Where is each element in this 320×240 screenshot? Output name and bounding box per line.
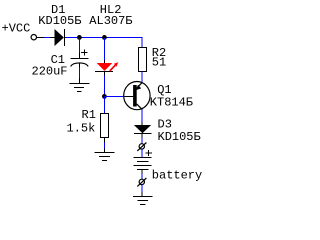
wire LED to base junction	[104, 76, 106, 97]
transistor Q1 emitter arrow (PNP)	[136, 85, 141, 90]
svg-text:1.5k: 1.5k	[67, 122, 96, 136]
wire test point 2 to ground	[141, 185, 143, 193]
ground under C1	[70, 84, 90, 92]
svg-text:KT814Б: KT814Б	[150, 95, 193, 109]
junction node LED branch	[102, 35, 107, 40]
capacitor C1 curved bottom plate	[71, 63, 89, 66]
diode D1 cathode bar	[63, 29, 65, 46]
wire D3 to test point	[141, 138, 143, 144]
wire C1 to ground	[79, 63, 81, 67]
ground under R1	[95, 153, 115, 161]
wire rail down to C1	[79, 38, 81, 53]
capacitor C1 anode stub	[79, 53, 81, 59]
wire Q1 collector down to D3	[141, 110, 143, 123]
transistor Q1 circle	[124, 82, 150, 110]
svg-text:battery: battery	[152, 168, 202, 182]
svg-text:KD105Б: KD105Б	[158, 130, 201, 144]
terminal stub wire	[37, 37, 44, 39]
battery plus sign	[145, 150, 151, 156]
LED HL2 red triangle	[97, 63, 113, 71]
wire terminal to D1 anode	[44, 37, 50, 39]
wire R1 to ground	[104, 138, 106, 143]
transistor Q1 emitter diagonal	[137, 82, 143, 88]
svg-text:+VCC: +VCC	[2, 21, 31, 35]
diode D3 cathode stub	[141, 134, 143, 138]
resistor R2 body	[139, 48, 147, 72]
transistor Q1 base line	[124, 96, 133, 98]
capacitor C1 plus sign	[81, 50, 87, 56]
LED cathode stub	[104, 72, 106, 76]
diode D3 anode stub	[141, 122, 143, 125]
diode D1 anode stub	[50, 37, 55, 39]
svg-text:KD105Б: KD105Б	[38, 14, 81, 28]
resistor R1 body	[101, 114, 109, 138]
svg-text:51: 51	[152, 55, 166, 69]
transistor Q1 collector diagonal	[137, 104, 143, 110]
junction node C1 branch	[77, 35, 82, 40]
wire rail down to LED	[104, 38, 106, 60]
battery plates	[134, 158, 152, 170]
terminal +VCC circle	[31, 35, 36, 40]
diode D1 triangle	[55, 29, 64, 46]
svg-text:R1: R1	[82, 108, 96, 122]
LED HL2 cathode bar	[95, 71, 113, 73]
transistor Q1 base bar	[133, 85, 137, 107]
wire main +VCC rail with bend down to R2	[65, 38, 142, 48]
diode D3 cathode bar	[134, 133, 152, 135]
wire junction to Q1 base	[105, 96, 125, 98]
junction node base/R1	[102, 94, 107, 99]
capacitor C1 top plate	[70, 58, 88, 60]
wire battery to test point 2	[141, 174, 143, 179]
battery bottom stub	[141, 170, 143, 175]
ground bottom	[133, 197, 152, 205]
svg-text:AL307Б: AL307Б	[89, 14, 132, 28]
svg-text:220uF: 220uF	[32, 65, 68, 79]
wire test point to battery	[141, 149, 143, 157]
test point circle 1 (crossed)	[139, 144, 144, 149]
diode D3 triangle	[134, 125, 151, 133]
test point circle 2 (crossed)	[139, 179, 144, 184]
LED HL2 emission arrow	[110, 65, 116, 71]
LED HL2 anode stub	[104, 60, 106, 64]
wire R2 to Q1 emitter	[141, 72, 143, 83]
wire junction down to R1	[104, 97, 106, 114]
